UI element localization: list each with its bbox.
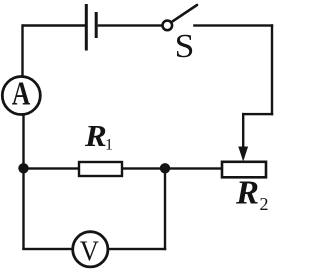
svg-text:S: S <box>175 28 195 65</box>
ammeter A circle <box>2 77 40 115</box>
wire: top-left horizontal from corner to battery <box>23 24 87 26</box>
battery short plate (right) <box>95 12 98 38</box>
wire: battery to switch <box>98 24 162 26</box>
wire: left vertical top corner to ammeter <box>21 24 23 76</box>
label R2 <box>235 175 269 214</box>
rheostat R2 body <box>222 162 266 178</box>
svg-text:1: 1 <box>105 137 113 154</box>
label R1 <box>84 119 113 154</box>
switch S lever <box>171 5 197 22</box>
resistor R1 body <box>79 162 122 176</box>
node: right junction <box>160 163 170 173</box>
svg-text:R: R <box>84 119 107 153</box>
svg-text:R: R <box>235 175 259 211</box>
wire: step horizontal to wiper <box>242 113 273 115</box>
wire: wiper vertical stem <box>242 113 244 149</box>
node: left junction <box>18 163 28 173</box>
wire: ammeter down through left node to bottom corner <box>22 114 24 250</box>
wire: middle horizontal from left node across to R2 <box>22 167 222 169</box>
wire: bottom horizontal left segment <box>22 248 73 250</box>
svg-text:V: V <box>80 236 99 267</box>
wire: right vertical from top corner down to step <box>271 24 273 115</box>
switch S pivot circle <box>163 21 173 31</box>
svg-text:2: 2 <box>260 194 269 214</box>
wire: switch to top-right corner <box>193 24 273 26</box>
battery long plate (left) <box>85 4 88 51</box>
wire: bottom horizontal right segment <box>108 248 166 250</box>
wire: right-middle vertical from right node to bottom corner <box>164 168 166 250</box>
voltmeter V circle <box>73 232 108 267</box>
svg-text:A: A <box>12 74 31 112</box>
wiper arrowhead onto R2 <box>238 147 248 162</box>
